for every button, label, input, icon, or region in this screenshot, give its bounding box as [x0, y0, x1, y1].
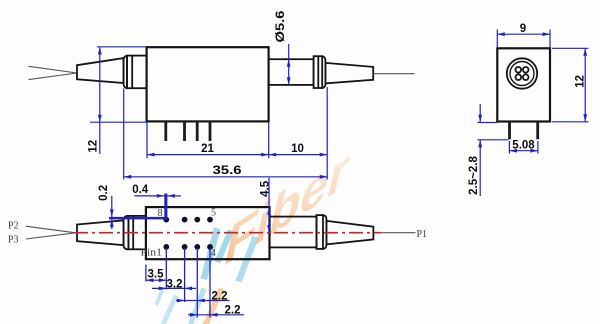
- pin dots bottom row: [163, 244, 213, 250]
- dimension 9 (end view width): [497, 30, 550, 48]
- right boot (side view): [325, 63, 373, 84]
- pin extension lines (bottom dims): [146, 248, 210, 318]
- thick blue marker horizontal: [109, 217, 167, 220]
- bottom view right fiber line: [374, 232, 416, 234]
- dimension 4.5 (body top to centerline): [267, 178, 271, 233]
- svg-text:0.4: 0.4: [132, 184, 149, 196]
- svg-text:3.2: 3.2: [167, 278, 183, 290]
- dimension 12 (side view height): [90, 47, 147, 154]
- watermark logo cyan stroke 2: [161, 295, 179, 324]
- dimension 2.2 first: [176, 299, 230, 303]
- svg-text:Pin1: Pin1: [141, 248, 163, 259]
- end view body outline: [497, 48, 550, 121]
- svg-text:P1: P1: [417, 229, 428, 240]
- bottom view right ferrule rings: [317, 215, 327, 249]
- body pins (side view): [166, 122, 210, 142]
- svg-text:2.5~2.8: 2.5~2.8: [468, 156, 480, 195]
- svg-text:P3: P3: [8, 235, 19, 246]
- dimension 0.2 (marker thickness): [110, 196, 114, 229]
- svg-text:3.5: 3.5: [148, 269, 165, 281]
- svg-text:5.08: 5.08: [512, 139, 535, 151]
- dimension 10 (right section length): [269, 153, 328, 157]
- svg-text:9: 9: [520, 23, 526, 35]
- svg-text:P2: P2: [8, 221, 19, 232]
- dimension 35.6 (overall length): [124, 87, 328, 180]
- right cylinder (side view): [269, 59, 314, 85]
- svg-text:10: 10: [291, 143, 304, 155]
- svg-text:Ø5.6: Ø5.6: [275, 11, 287, 43]
- main body (side view): [147, 47, 269, 121]
- dimension Ø5.6 (cylinder diameter): [287, 44, 291, 85]
- dimension 5.08 (pin spacing): [509, 141, 538, 154]
- dimension 3.5: [146, 278, 166, 282]
- red centerline: [74, 232, 381, 234]
- bottom view left ferrule rings: [124, 216, 146, 249]
- end view collimator inner circle: [510, 62, 534, 86]
- svg-text:12: 12: [574, 75, 586, 88]
- svg-text:2.2: 2.2: [225, 305, 241, 317]
- dimension 2.5~2.8 (pin length): [478, 104, 509, 196]
- watermark logo cyan stroke 6: [236, 236, 259, 283]
- watermark logo cyan stroke 3: [188, 288, 207, 324]
- watermark logo cyan stroke 1: [155, 287, 166, 307]
- left ferrule rings (side view): [124, 56, 147, 89]
- svg-text:4.5: 4.5: [259, 180, 271, 197]
- dimension 3.2: [152, 287, 196, 291]
- dimension 0.4 (marker width): [134, 194, 181, 198]
- svg-text:35.6: 35.6: [213, 165, 242, 177]
- right fiber pigtail line (side view): [374, 73, 415, 75]
- watermark logo cyan stroke 4: [201, 228, 221, 281]
- bottom view left fiber lines: [26, 226, 76, 239]
- dimension 2.2 second: [188, 313, 244, 317]
- thick blue marker vertical: [164, 194, 167, 220]
- svg-text:0.2: 0.2: [98, 185, 110, 201]
- bottom view right cylinder: [270, 217, 317, 248]
- watermark logo orange stroke: [203, 288, 225, 324]
- svg-text:2.2: 2.2: [212, 290, 228, 302]
- end view pins: [510, 122, 538, 140]
- right ferrule rings (side view): [314, 56, 326, 88]
- svg-text:21: 21: [201, 143, 214, 155]
- bottom view main body: [146, 207, 270, 259]
- left fiber pigtail lines (side view): [29, 66, 78, 79]
- end view collimator outer circle: [507, 58, 537, 88]
- svg-text:5: 5: [211, 208, 216, 219]
- bottom view left boot: [77, 220, 124, 245]
- bottom view right boot: [326, 221, 373, 245]
- svg-text:12: 12: [87, 140, 99, 153]
- pin dots top row: [163, 217, 213, 223]
- svg-text:4: 4: [211, 248, 216, 259]
- left boot (side view): [77, 58, 124, 83]
- dimension 12 (end view height): [552, 48, 589, 122]
- end view fiber holes 2x2: [516, 67, 529, 80]
- dimension 21 (body length): [147, 122, 269, 158]
- watermark logo cyan stroke 5: [215, 230, 234, 264]
